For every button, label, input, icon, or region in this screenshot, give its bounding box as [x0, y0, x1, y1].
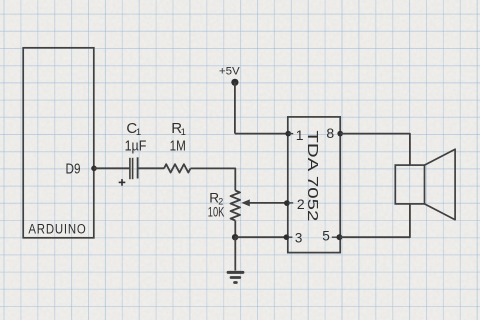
+5V supply terminal dot [231, 79, 238, 86]
pin 3 tick [288, 236, 292, 238]
wire +5V down [234, 82, 236, 133]
pin number 5 [322, 228, 330, 243]
potentiometer R2 body [231, 191, 241, 221]
junction dot R2/ground/pin3 [232, 234, 238, 240]
pin number 1 [296, 127, 304, 143]
R2 wiper arrow [241, 199, 287, 206]
svg-text:1: 1 [136, 127, 141, 138]
value label 1µF [125, 138, 147, 154]
wire D9 to C1 [94, 167, 130, 169]
wire R2 bottom [234, 221, 236, 238]
resistor R1 [164, 164, 191, 172]
svg-text:1: 1 [181, 127, 186, 138]
junction dot at D9 output [91, 166, 97, 172]
pin 1 tick [288, 133, 293, 135]
wire junction down to ground [234, 237, 236, 270]
Arduino module U2 body [23, 48, 94, 238]
value label 1M [170, 139, 186, 155]
wire +5V rail to pin 1 [235, 133, 288, 135]
wire R1 to R2 top (elbow) [191, 168, 236, 190]
pin number 3 [295, 231, 302, 246]
capacitor C1 symbol [130, 157, 138, 179]
wire C1 to R1 [138, 167, 164, 169]
label TDA 7052 (rotated) [304, 130, 321, 221]
svg-text:+5V: +5V [219, 65, 241, 77]
pin 2 dot [284, 200, 290, 206]
wire pin 8 to speaker (top) [340, 134, 410, 166]
svg-text:1: 1 [296, 127, 304, 143]
svg-text:1µF: 1µF [125, 138, 147, 154]
svg-text:10K: 10K [208, 204, 225, 219]
pin 5 dot [337, 234, 343, 240]
speaker LS1 cone [425, 149, 456, 220]
label C1 [126, 120, 141, 138]
label ARDUINO [28, 222, 86, 238]
svg-text:1M: 1M [170, 139, 186, 155]
pin label D9 [66, 161, 81, 177]
pin 1 dot [285, 131, 291, 137]
svg-text:8: 8 [326, 125, 334, 141]
plus polarity mark of C1 [119, 179, 126, 186]
pin number 8 [326, 125, 334, 141]
svg-text:3: 3 [295, 231, 302, 246]
svg-text:5: 5 [322, 228, 330, 243]
wire junction to pin 3 [235, 236, 286, 238]
ground [228, 272, 243, 282]
svg-text:TDA 7052: TDA 7052 [304, 130, 321, 221]
pin 2 tick [288, 202, 293, 204]
svg-text:2: 2 [297, 196, 305, 212]
pin 5 tick [332, 236, 337, 238]
wire pin 5 to speaker (bottom) [339, 204, 410, 237]
IC U1 TDA7052 body [288, 117, 340, 253]
label R2 [209, 191, 223, 207]
label R1 [171, 120, 186, 138]
pin number 2 [297, 196, 305, 212]
svg-text:ARDUINO: ARDUINO [28, 222, 86, 238]
label +5V [219, 65, 241, 77]
svg-text:D9: D9 [66, 161, 81, 177]
pin 8 dot [337, 131, 343, 137]
pin 3 dot [284, 234, 290, 240]
value label 10K [208, 204, 225, 219]
speaker LS1 driver box [395, 165, 424, 204]
